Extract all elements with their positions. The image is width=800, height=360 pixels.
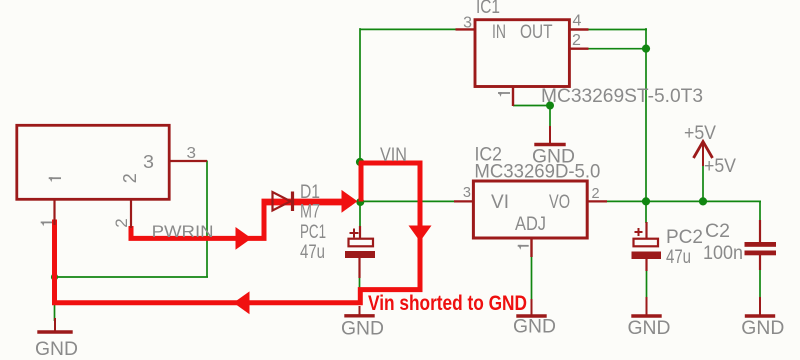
IC2 pin 3 stub — [454, 200, 472, 202]
arrowhead right at VIN node — [342, 190, 358, 213]
ground GND (IC2) — [513, 299, 556, 338]
PWRIN pad name 1 (rotated) — [49, 177, 61, 182]
capacitor PC2 (polarized) — [632, 222, 662, 271]
capacitor PC1 (polarized) — [345, 226, 375, 278]
node junction IC1 pin2/pin4 — [642, 45, 650, 53]
supply +5V arrow symbol — [694, 142, 713, 167]
ground GND (IC1) — [532, 126, 575, 168]
svg-text:2: 2 — [112, 218, 131, 227]
node junction +5V rail / PC2 — [642, 197, 650, 205]
svg-text:GND: GND — [341, 319, 384, 340]
wire PWRIN pin3 net to pin1 vertical — [54, 276, 209, 278]
wire highlight: short-circuit current path from PWRIN pin2 up to diode level — [131, 200, 264, 239]
svg-text:C2: C2 — [705, 221, 730, 242]
svg-text:GND: GND — [628, 318, 671, 339]
IC1 pin 3 stub — [456, 28, 477, 30]
svg-text:D1: D1 — [300, 182, 320, 203]
svg-text:2: 2 — [592, 186, 600, 202]
PWRIN pin 3 stub — [169, 160, 207, 162]
svg-text:VIN: VIN — [380, 145, 407, 166]
IC2 pin 1 stub — [530, 238, 532, 257]
node junction +5V rail / supply — [699, 197, 707, 205]
wire PC1 bottom to GND net — [359, 258, 361, 305]
node junction PWRIN gnd net — [51, 273, 58, 280]
voltage regulator IC1 box — [475, 20, 569, 87]
wire rail down to PC2 — [645, 201, 647, 223]
arrowhead left on bottom segment — [234, 291, 250, 314]
svg-text:2: 2 — [572, 32, 581, 49]
svg-text:OUT: OUT — [520, 22, 553, 43]
svg-text:MC33269D-5.0: MC33269D-5.0 — [474, 162, 600, 183]
svg-text:2: 2 — [120, 173, 140, 183]
node junction IC1 GND — [546, 102, 554, 110]
PWRIN pin 2 stub — [130, 199, 132, 228]
wire IC1 pin1 to GND corner — [513, 105, 551, 107]
svg-text:VO: VO — [549, 192, 570, 213]
wire highlight: VIN node vertical stub — [359, 162, 364, 202]
svg-text:MC33269ST-5.0T3: MC33269ST-5.0T3 — [541, 86, 703, 107]
svg-text:3: 3 — [463, 185, 471, 201]
wire highlight: segment through diode D1 to VIN node — [262, 199, 353, 206]
svg-text:47u: 47u — [666, 247, 691, 268]
svg-text:4: 4 — [573, 13, 582, 30]
IC1 pin 2 stub — [568, 48, 589, 50]
ground GND (PWRIN pin1) — [35, 318, 78, 360]
arrowhead down on vertical segment — [409, 226, 432, 242]
svg-text:GND: GND — [513, 317, 556, 338]
svg-text:3: 3 — [187, 145, 197, 162]
wire net VIN: IC1 pin3 horizontal — [360, 28, 457, 30]
arrowhead right on pin2 segment — [236, 227, 252, 250]
IC1 pin 4 stub — [568, 28, 589, 30]
wire VIN node down to PC1 plus — [359, 203, 361, 226]
svg-text:+5V: +5V — [684, 123, 716, 144]
wire highlight: VIN loop down and left to GND net — [55, 163, 421, 303]
wire IC1 pin4 to corner — [588, 29, 648, 31]
wire PWRIN pin3 down — [206, 161, 208, 278]
wire +5V supply stem to rail — [702, 164, 704, 202]
svg-text:3: 3 — [143, 152, 154, 172]
wire IC2 pin1 ADJ down to GND — [531, 256, 533, 301]
connector PWRIN box — [17, 125, 169, 199]
wire net VIN: vertical down to diode node — [359, 28, 361, 203]
IC2 pin number 1 (rotated) — [518, 245, 529, 250]
PWRIN pin 1 stub — [53, 199, 55, 225]
svg-text:M7: M7 — [300, 202, 320, 223]
svg-text:IC1: IC1 — [476, 0, 500, 18]
wire VIN node to IC2 pin3 — [360, 200, 454, 202]
svg-text:+5V: +5V — [704, 156, 736, 177]
IC2 pin 2 stub — [588, 200, 607, 202]
wire C2 bottom to GND — [759, 268, 761, 298]
capacitor C2 (100n) — [745, 220, 777, 270]
wire PWRIN pin1 down to GND — [54, 224, 56, 321]
node VIN diode junction — [356, 198, 364, 206]
node VIN upper junction — [356, 158, 364, 166]
svg-text:PC1: PC1 — [300, 222, 326, 243]
ground GND (PC2) — [628, 297, 671, 339]
IC1 pin 1 stub — [512, 87, 514, 106]
svg-text:GND: GND — [35, 339, 78, 360]
svg-text:PWRIN: PWRIN — [152, 222, 214, 241]
wire IC1 pin2 to junction — [588, 48, 647, 50]
ground GND (C2) — [741, 297, 784, 339]
IC1 pin number 1 (rotated) — [498, 92, 510, 97]
wire down to IC1 GND — [549, 105, 551, 128]
svg-text:ADJ: ADJ — [515, 214, 546, 235]
svg-text:IN: IN — [492, 22, 506, 43]
ground GND (PC1) — [341, 306, 384, 340]
wire rail down to C2 — [759, 201, 761, 223]
wire +5V rail horizontal — [606, 200, 761, 202]
svg-text:Vin shorted to GND: Vin shorted to GND — [368, 292, 527, 315]
svg-text:PC2: PC2 — [666, 227, 703, 248]
svg-text:GND: GND — [741, 318, 784, 339]
svg-text:VI: VI — [491, 192, 509, 213]
diode D1 — [273, 192, 293, 212]
svg-text:3: 3 — [463, 15, 472, 32]
svg-text:100n: 100n — [703, 243, 743, 264]
svg-text:47u: 47u — [300, 242, 325, 263]
PWRIN pin number 1 (rotated) — [41, 222, 52, 227]
wire vertical right bus from IC1 outputs to +5V rail — [645, 28, 647, 203]
voltage regulator IC2 box — [473, 181, 587, 238]
wire PC2 bottom to GND — [646, 269, 648, 298]
